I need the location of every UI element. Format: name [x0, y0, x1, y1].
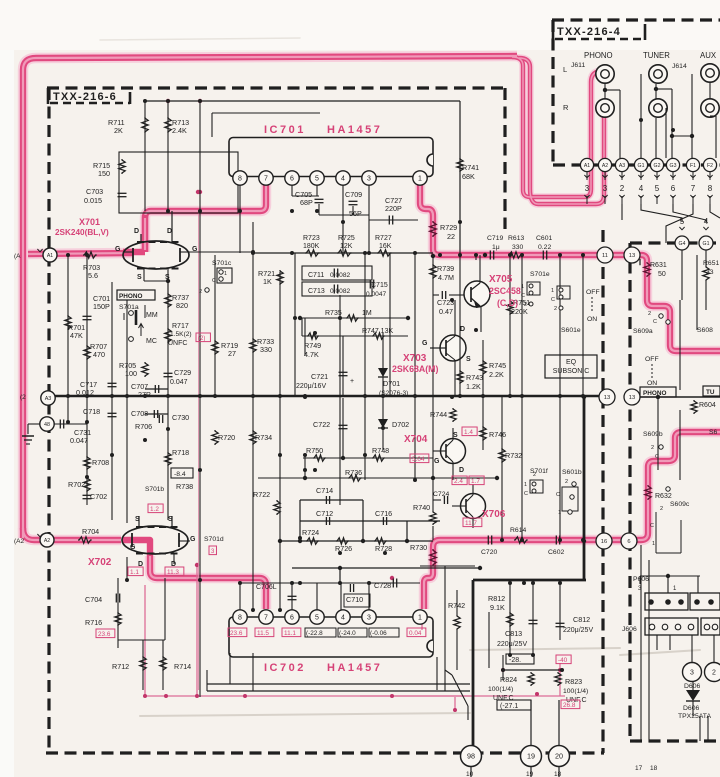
svg-text:22: 22 [447, 232, 455, 241]
svg-text:D606: D606 [684, 683, 700, 690]
svg-text:1μ: 1μ [492, 244, 500, 251]
svg-text:220μ/25V: 220μ/25V [497, 641, 527, 648]
svg-text:A1: A1 [584, 163, 590, 169]
svg-text:220K: 220K [511, 307, 528, 316]
svg-text:2K: 2K [114, 126, 123, 135]
svg-text:56P: 56P [349, 209, 362, 218]
svg-text:13: 13 [629, 253, 635, 259]
svg-text:+: + [350, 378, 354, 385]
svg-text:A1: A1 [47, 253, 53, 259]
svg-text:2.2K: 2.2K [489, 370, 504, 379]
svg-text:TXX-216-4: TXX-216-4 [557, 26, 621, 38]
svg-text:33: 33 [706, 269, 714, 276]
svg-text:1.4: 1.4 [464, 429, 473, 436]
svg-text:68P: 68P [300, 198, 313, 207]
svg-text:R750: R750 [306, 446, 323, 455]
svg-text:(C,D): (C,D) [497, 298, 518, 308]
svg-text:12K: 12K [340, 243, 353, 250]
svg-text:R746: R746 [489, 430, 506, 439]
svg-text:IC701: IC701 [264, 124, 306, 136]
svg-text:TPX25ATA: TPX25ATA [678, 713, 711, 720]
svg-text:16K: 16K [379, 243, 392, 250]
svg-text:D: D [460, 326, 465, 333]
svg-text:C: C [653, 319, 657, 325]
svg-text:(S2076-3): (S2076-3) [379, 390, 408, 397]
svg-text:2SK68A(M): 2SK68A(M) [392, 364, 439, 374]
svg-text:S601b: S601b [562, 469, 582, 476]
svg-text:(A: (A [14, 253, 21, 260]
svg-text:C720: C720 [481, 549, 497, 556]
svg-text:8: 8 [708, 184, 713, 193]
svg-text:17: 17 [635, 765, 643, 772]
svg-text:G4: G4 [679, 241, 686, 247]
svg-text:HA1457: HA1457 [327, 124, 382, 136]
svg-text:IC702: IC702 [264, 662, 306, 674]
svg-text:MC: MC [146, 338, 157, 345]
svg-text:F1: F1 [690, 163, 696, 169]
svg-text:(2: (2 [20, 394, 26, 401]
svg-text:X706: X706 [482, 509, 506, 520]
svg-text:50: 50 [658, 271, 666, 278]
svg-text:OFF: OFF [586, 289, 600, 296]
svg-text:0.0082: 0.0082 [330, 272, 351, 279]
svg-text:R717: R717 [172, 323, 189, 330]
svg-text:1: 1 [652, 541, 655, 547]
svg-text:C710: C710 [346, 595, 363, 604]
svg-text:S701e: S701e [530, 271, 550, 278]
svg-text:C: C [551, 297, 555, 303]
svg-text:19: 19 [527, 752, 535, 761]
svg-text:100: 100 [125, 369, 137, 378]
svg-text:2: 2 [712, 670, 716, 677]
svg-text:R748: R748 [372, 446, 389, 455]
svg-text:AUX: AUX [700, 51, 717, 60]
svg-text:220P: 220P [385, 204, 402, 213]
svg-text:5.6: 5.6 [88, 271, 98, 280]
svg-text:R725: R725 [338, 235, 355, 242]
svg-text:S601e: S601e [561, 327, 581, 334]
svg-text:2: 2 [651, 445, 654, 451]
svg-text:8: 8 [238, 176, 242, 183]
svg-text:S609b: S609b [643, 431, 663, 438]
svg-text:G: G [422, 340, 428, 347]
svg-text:R716: R716 [85, 618, 102, 627]
svg-text:J614: J614 [672, 63, 687, 70]
svg-text:2: 2 [648, 311, 651, 317]
svg-text:1M: 1M [362, 310, 372, 317]
svg-text:C721: C721 [311, 372, 328, 381]
svg-text:R708: R708 [92, 458, 109, 467]
svg-text:S701b: S701b [145, 486, 164, 493]
svg-text:G3: G3 [670, 163, 677, 169]
svg-text:1: 1 [558, 510, 561, 516]
svg-text:TXX-216-6: TXX-216-6 [53, 91, 117, 103]
svg-text:0.47: 0.47 [439, 307, 453, 316]
svg-text:11.1: 11.1 [284, 630, 296, 637]
svg-text:R728: R728 [375, 544, 392, 553]
svg-text:4.7K: 4.7K [304, 350, 319, 359]
svg-text:220μ/16V: 220μ/16V [296, 383, 326, 390]
svg-text:G: G [190, 536, 196, 543]
svg-text:(-22.8: (-22.8 [306, 630, 323, 637]
svg-text:R742: R742 [448, 601, 465, 610]
svg-text:C: C [212, 278, 216, 284]
svg-text:98: 98 [467, 752, 475, 761]
svg-text:4: 4 [639, 184, 644, 193]
svg-text:R614: R614 [510, 527, 526, 534]
svg-text:C716: C716 [375, 509, 392, 518]
svg-text:3: 3 [585, 184, 590, 193]
svg-text:R706: R706 [135, 422, 152, 431]
svg-text:D: D [167, 228, 172, 235]
svg-text:1.2K: 1.2K [466, 382, 481, 391]
svg-text:G: G [115, 246, 121, 253]
svg-text:2: 2 [565, 479, 568, 485]
svg-text:S609a: S609a [633, 328, 653, 335]
svg-text:23.6: 23.6 [230, 630, 243, 637]
svg-text:3: 3 [603, 184, 608, 193]
svg-text:R720: R720 [218, 433, 235, 442]
svg-text:S: S [137, 274, 142, 281]
svg-text:2: 2 [660, 506, 663, 512]
svg-text:9.1K: 9.1K [490, 603, 505, 612]
svg-text:6: 6 [290, 615, 294, 622]
svg-text:G2: G2 [654, 163, 661, 169]
svg-text:7: 7 [264, 176, 268, 183]
svg-text:L: L [563, 65, 567, 74]
svg-text:-28.: -28. [509, 657, 521, 664]
svg-text:R824: R824 [500, 675, 517, 684]
svg-text:11: 11 [602, 253, 608, 259]
svg-text:27: 27 [228, 349, 236, 358]
svg-text:R613: R613 [508, 235, 524, 242]
svg-text:C728: C728 [374, 581, 391, 590]
svg-text:A3: A3 [619, 163, 625, 169]
svg-text:ON: ON [647, 380, 657, 387]
svg-text:18: 18 [554, 771, 562, 777]
svg-text:C: C [556, 492, 560, 498]
svg-text:0.047: 0.047 [70, 436, 88, 445]
svg-text:C702: C702 [90, 492, 107, 501]
svg-text:OFF: OFF [645, 356, 659, 363]
svg-text:S: S [466, 356, 471, 363]
svg-text:R738: R738 [176, 482, 193, 491]
svg-text:1: 1 [551, 288, 554, 294]
svg-text:R734: R734 [255, 433, 272, 442]
svg-text:1.7: 1.7 [471, 478, 480, 485]
svg-text:X705: X705 [489, 274, 513, 285]
svg-text:S: S [453, 432, 458, 439]
svg-text:PHONO: PHONO [119, 293, 142, 300]
svg-text:D701: D701 [383, 379, 400, 388]
svg-text:2: 2 [554, 306, 557, 312]
svg-text:R727: R727 [375, 235, 392, 242]
svg-text:F2: F2 [707, 163, 713, 169]
svg-text:6: 6 [290, 176, 294, 183]
svg-text:C713: C713 [308, 288, 325, 295]
svg-text:G: G [192, 246, 198, 253]
svg-text:1: 1 [418, 176, 422, 183]
svg-text:2.4: 2.4 [454, 478, 463, 485]
svg-text:S701c: S701c [212, 260, 232, 267]
svg-text:S6: S6 [709, 429, 718, 436]
svg-text:5.04: 5.04 [412, 456, 425, 463]
svg-text:1.2: 1.2 [150, 506, 159, 513]
svg-text:0.04: 0.04 [409, 630, 422, 637]
svg-text:13: 13 [629, 395, 635, 401]
svg-text:16: 16 [601, 539, 607, 545]
svg-text:EQ: EQ [566, 359, 577, 366]
svg-text:23.6: 23.6 [98, 631, 111, 638]
svg-text:R740: R740 [413, 503, 430, 512]
svg-text:C714: C714 [316, 486, 333, 495]
svg-text:220μ/25V: 220μ/25V [563, 627, 593, 634]
svg-text:R722: R722 [253, 490, 270, 499]
svg-text:C722: C722 [313, 420, 330, 429]
svg-text:100(1/4): 100(1/4) [563, 688, 588, 695]
svg-text:150P: 150P [93, 302, 110, 311]
svg-text:R651: R651 [703, 260, 719, 267]
svg-text:1: 1 [418, 615, 422, 622]
svg-text:R714: R714 [174, 662, 191, 671]
svg-text:2.4K: 2.4K [172, 126, 187, 135]
svg-text:(-27.1: (-27.1 [500, 703, 518, 710]
svg-text:1: 1 [521, 284, 524, 290]
svg-text:R723: R723 [303, 235, 320, 242]
svg-text:UNF.C: UNF.C [493, 695, 514, 702]
svg-text:C706L: C706L [256, 584, 277, 591]
svg-text:A3: A3 [45, 396, 52, 402]
svg-text:C812: C812 [573, 615, 590, 624]
svg-text:D: D [134, 228, 139, 235]
svg-text:19: 19 [526, 771, 534, 777]
svg-text:11.5: 11.5 [257, 630, 269, 637]
svg-text:3: 3 [367, 176, 371, 183]
svg-text:C: C [524, 491, 528, 497]
svg-text:R631: R631 [650, 262, 667, 269]
svg-text:C729: C729 [174, 368, 191, 377]
svg-text:C730: C730 [172, 413, 189, 422]
svg-text:C602: C602 [548, 549, 564, 556]
svg-text:13: 13 [604, 395, 610, 401]
svg-text:R712: R712 [112, 662, 129, 671]
svg-text:4: 4 [341, 615, 345, 622]
svg-text:5: 5 [655, 184, 660, 193]
svg-text:G: G [130, 544, 136, 551]
svg-text:R739: R739 [437, 264, 454, 273]
svg-text:2: 2 [533, 472, 536, 478]
svg-text:R730: R730 [410, 543, 427, 552]
svg-text:(-24.0: (-24.0 [339, 630, 356, 637]
svg-text:18: 18 [650, 765, 658, 772]
svg-text:2SC458: 2SC458 [489, 286, 521, 296]
svg-text:100(1/4): 100(1/4) [488, 686, 513, 693]
svg-text:-8.4: -8.4 [174, 471, 186, 478]
svg-text:R823: R823 [565, 677, 582, 686]
svg-text:S: S [165, 274, 170, 281]
svg-text:3: 3 [367, 615, 371, 622]
svg-text:R812: R812 [488, 594, 505, 603]
svg-text:26.8: 26.8 [563, 702, 576, 709]
svg-text:C709: C709 [345, 190, 362, 199]
svg-text:2SK240(BL,V): 2SK240(BL,V) [55, 228, 109, 237]
svg-text:1.1: 1.1 [130, 569, 139, 576]
svg-text:(A2: (A2 [14, 538, 25, 545]
svg-text:R729: R729 [440, 223, 457, 232]
svg-text:D702: D702 [392, 420, 409, 429]
svg-text:1: 1 [224, 271, 227, 277]
svg-text:S608: S608 [697, 327, 713, 334]
svg-text:C704: C704 [85, 595, 102, 604]
svg-text:G1: G1 [638, 163, 645, 169]
svg-text:1: 1 [524, 482, 527, 488]
svg-text:R741: R741 [462, 163, 479, 172]
svg-text:R732: R732 [505, 451, 522, 460]
svg-text:(2): (2) [198, 336, 205, 342]
svg-text:0.012: 0.012 [76, 388, 94, 397]
svg-text:R724: R724 [302, 528, 319, 537]
svg-text:PHONO: PHONO [643, 390, 666, 397]
svg-text:R747 13K: R747 13K [362, 328, 393, 335]
svg-text:C813: C813 [505, 629, 522, 638]
svg-text:X704: X704 [404, 434, 428, 445]
svg-text:C718: C718 [83, 407, 100, 416]
svg-text:HA1457: HA1457 [327, 662, 382, 674]
svg-text:X703: X703 [403, 353, 427, 364]
svg-text:S701d: S701d [204, 536, 224, 543]
svg-text:SUBSONIC: SUBSONIC [553, 368, 590, 375]
svg-text:820: 820 [176, 301, 188, 310]
svg-text:150: 150 [98, 169, 110, 178]
svg-text:J606: J606 [622, 626, 637, 633]
svg-text:C711: C711 [308, 272, 324, 279]
svg-text:48: 48 [44, 422, 50, 428]
svg-text:R749: R749 [304, 341, 321, 350]
svg-text:J611: J611 [571, 62, 585, 69]
svg-text:0.015: 0.015 [84, 196, 102, 205]
svg-text:ON: ON [587, 316, 597, 323]
svg-text:68K: 68K [462, 172, 475, 181]
svg-text:D: D [138, 561, 143, 568]
svg-text:C724: C724 [433, 491, 449, 498]
svg-text:G: G [434, 458, 440, 465]
svg-text:C: C [650, 523, 654, 529]
svg-text:R745: R745 [489, 361, 506, 370]
svg-text:R704: R704 [82, 527, 99, 536]
svg-text:7: 7 [691, 184, 696, 193]
svg-text:D: D [171, 561, 176, 568]
svg-text:A2: A2 [602, 163, 608, 169]
svg-text:47K: 47K [70, 331, 83, 340]
svg-text:20: 20 [555, 752, 563, 761]
svg-text:R726: R726 [335, 544, 352, 553]
svg-text:R632: R632 [655, 493, 672, 500]
svg-text:0.22: 0.22 [538, 244, 551, 251]
svg-text:C601: C601 [536, 235, 552, 242]
svg-text:C715: C715 [371, 282, 388, 289]
svg-text:R735: R735 [325, 310, 342, 317]
svg-text:R604: R604 [699, 402, 716, 409]
svg-text:C712: C712 [316, 509, 333, 518]
svg-text:2: 2 [620, 184, 625, 193]
svg-text:330: 330 [260, 345, 272, 354]
svg-text:R718: R718 [172, 448, 189, 457]
svg-text:X702: X702 [88, 557, 112, 568]
svg-text:1K: 1K [263, 277, 272, 286]
svg-text:R: R [563, 103, 569, 112]
svg-text:2: 2 [199, 289, 202, 295]
svg-text:0.0047: 0.0047 [366, 291, 387, 298]
svg-text:27P: 27P [138, 390, 151, 399]
svg-text:4: 4 [341, 176, 345, 183]
svg-text:D606: D606 [683, 705, 699, 712]
svg-text:A2: A2 [44, 538, 50, 544]
svg-text:470: 470 [93, 350, 105, 359]
svg-text:S609c: S609c [670, 501, 690, 508]
svg-text:C723: C723 [437, 298, 454, 307]
svg-text:330: 330 [512, 244, 524, 251]
svg-text:R743: R743 [466, 373, 483, 382]
svg-text:7: 7 [264, 615, 268, 622]
svg-text:TU: TU [706, 389, 715, 396]
svg-text:4.7M: 4.7M [438, 273, 454, 282]
svg-text:S: S [168, 516, 173, 523]
svg-text:11.3: 11.3 [167, 569, 179, 576]
svg-text:11.7: 11.7 [465, 520, 477, 527]
svg-text:MM: MM [146, 312, 158, 319]
svg-text:G1: G1 [703, 241, 710, 247]
svg-text:R702: R702 [68, 480, 85, 489]
svg-text:UNFC: UNFC [168, 340, 187, 347]
svg-text:S701a: S701a [119, 304, 139, 311]
svg-text:R744: R744 [430, 410, 447, 419]
svg-text:5: 5 [315, 615, 319, 622]
svg-text:C703: C703 [86, 187, 103, 196]
svg-text:PHONO: PHONO [584, 51, 613, 60]
svg-text:10: 10 [466, 771, 474, 777]
svg-text:5: 5 [315, 176, 319, 183]
svg-text:6: 6 [627, 539, 630, 545]
svg-text:TUNER: TUNER [643, 51, 670, 60]
svg-text:8: 8 [238, 615, 242, 622]
svg-text:180K: 180K [303, 243, 320, 250]
svg-text:0.047: 0.047 [170, 379, 188, 386]
svg-text:1.5K(2): 1.5K(2) [170, 331, 192, 338]
svg-text:C708: C708 [131, 409, 148, 418]
svg-text:D: D [459, 467, 464, 474]
svg-text:(-0.06: (-0.06 [370, 630, 387, 637]
svg-text:4: 4 [704, 217, 709, 226]
svg-text:-40: -40 [558, 657, 568, 664]
svg-text:S: S [135, 516, 140, 523]
svg-text:X701: X701 [79, 217, 100, 227]
svg-text:3: 3 [690, 670, 694, 677]
svg-text:C719: C719 [487, 235, 503, 242]
svg-text:R736: R736 [345, 468, 362, 477]
svg-text:6: 6 [671, 184, 676, 193]
svg-text:0.0082: 0.0082 [330, 288, 351, 295]
